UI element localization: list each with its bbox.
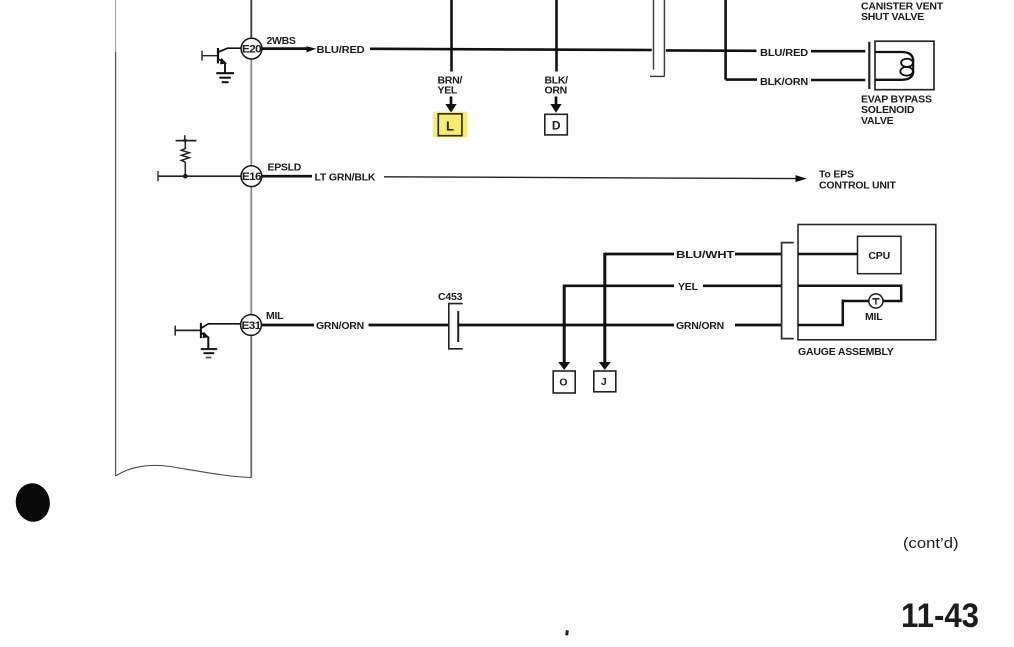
wire E16 to LT GRN/BLK xyxy=(262,175,312,178)
wire canister vent shut valve drop xyxy=(726,0,757,80)
node E16 connector circle xyxy=(241,166,262,187)
connector O xyxy=(553,371,575,393)
BLK/ORN wire color label xyxy=(545,74,569,96)
wire GRN/ORN run after C453 xyxy=(458,324,781,327)
ground (E31 transistor emitter) xyxy=(201,349,217,357)
wire BLU/RED horizontal run xyxy=(370,49,757,51)
svg-text:ORN: ORN xyxy=(545,85,567,97)
svg-text:SHUT VALVE: SHUT VALVE xyxy=(861,11,924,23)
wire BLU/WHT inside gauge to CPU xyxy=(798,253,858,256)
wire BLU/WHT label xyxy=(676,249,735,261)
svg-text:CONTROL UNIT: CONTROL UNIT xyxy=(819,180,897,192)
wire BRN/YEL vertical from top xyxy=(450,0,453,72)
transistor Q (power transistor at E20) xyxy=(202,48,241,73)
wire MIL lamp to GRN/ORN xyxy=(798,300,869,326)
svg-text:O: O xyxy=(559,376,567,388)
connector C453 xyxy=(438,291,463,349)
wire arrow down to connector L xyxy=(445,97,456,113)
wire YEL branch: corner + vertical to connector O xyxy=(558,285,674,370)
wire BLU/WHT run to gauge connector xyxy=(735,253,781,256)
wire into E16 from left xyxy=(158,171,241,181)
svg-text:GAUGE ASSEMBLY: GAUGE ASSEMBLY xyxy=(798,346,894,358)
ink speck xyxy=(565,630,569,635)
svg-text:2WBS: 2WBS xyxy=(267,35,296,47)
CANISTER VENT SHUT VALVE label xyxy=(861,1,944,24)
MIL terminal label xyxy=(266,310,284,322)
svg-text:E20: E20 xyxy=(242,44,262,56)
GAUGE ASSEMBLY label xyxy=(798,346,894,358)
wire GRN/ORN label (left) xyxy=(316,320,364,332)
wire BLK/ORN to valve xyxy=(811,79,865,82)
svg-text:VALVE: VALVE xyxy=(861,115,894,127)
svg-text:YEL: YEL xyxy=(678,281,699,293)
page number 11-43 xyxy=(901,597,979,635)
wire GRN/ORN run to C453 xyxy=(369,324,450,327)
EVAP BYPASS SOLENOID VALVE label xyxy=(861,94,932,127)
node E20 connector circle xyxy=(241,38,262,59)
wire YEL label xyxy=(678,281,699,293)
svg-text:L: L xyxy=(446,118,454,133)
svg-text:MIL: MIL xyxy=(266,310,284,322)
wire BLU/RED label (right) xyxy=(760,47,809,59)
svg-text:GRN/ORN: GRN/ORN xyxy=(316,320,364,332)
wire GRN/ORN label (right) xyxy=(676,320,724,332)
wire BLU/RED to valve xyxy=(811,50,865,53)
CPU box xyxy=(858,236,902,273)
torn paper edge xyxy=(116,465,252,477)
wire E20 to BLU/RED arrow xyxy=(262,46,316,52)
page marker black dot xyxy=(13,481,52,524)
svg-text:11-43: 11-43 xyxy=(901,597,979,635)
svg-text:(cont’d): (cont’d) xyxy=(903,535,959,552)
wire BLK/ORN vertical from top xyxy=(555,0,558,72)
svg-text:J: J xyxy=(601,376,607,388)
svg-text:BLU/RED: BLU/RED xyxy=(760,47,809,59)
svg-text:E16: E16 xyxy=(242,171,262,183)
svg-text:YEL: YEL xyxy=(438,85,458,97)
ground (E20 transistor emitter) xyxy=(216,73,234,82)
wire BLU/RED label (left) xyxy=(317,44,366,56)
svg-text:E31: E31 xyxy=(242,320,262,332)
BRN/YEL wire color label xyxy=(438,74,463,96)
svg-text:MIL: MIL xyxy=(865,311,883,323)
MIL lamp label xyxy=(865,311,883,323)
transistor Q (power transistor at E31) xyxy=(175,323,241,349)
svg-text:BLK/ORN: BLK/ORN xyxy=(760,76,808,88)
To EPS CONTROL UNIT label xyxy=(819,169,897,192)
wire YEL run to gauge connector xyxy=(703,284,781,287)
resistor / sensor symbol near E16 xyxy=(176,135,197,178)
wire YEL inside gauge xyxy=(798,285,902,302)
connector D xyxy=(545,114,568,135)
svg-text:D: D xyxy=(552,119,561,133)
wire arrow down to connector D xyxy=(550,97,561,113)
gauge assembly box xyxy=(798,225,936,340)
wire main vertical bus through E20 E16 E31 xyxy=(250,0,252,478)
wire E31 to GRN/ORN xyxy=(262,324,315,327)
(cont'd) note xyxy=(903,535,959,552)
svg-text:CPU: CPU xyxy=(868,250,890,262)
gauge connector (bracket) xyxy=(782,243,794,339)
wire LT GRN/BLK label xyxy=(315,171,376,183)
solenoid coil L1 xyxy=(875,52,913,80)
svg-text:C453: C453 xyxy=(438,291,463,303)
EVAP bypass solenoid valve box xyxy=(875,41,934,89)
connector bar at solenoid valve xyxy=(868,42,870,89)
node E31 connector circle xyxy=(241,315,262,336)
connector L (highlighted) xyxy=(433,112,468,138)
wire BLK/ORN label (right) xyxy=(760,76,808,88)
svg-text:LT GRN/BLK: LT GRN/BLK xyxy=(315,171,376,183)
wire BLU/WHT branch: corner + vertical to connector J xyxy=(599,253,674,370)
EPSLD terminal label xyxy=(268,161,302,173)
svg-text:BLU/RED: BLU/RED xyxy=(317,44,366,56)
svg-text:EPSLD: EPSLD xyxy=(268,161,302,173)
wire left page-edge vertical line xyxy=(115,0,117,476)
wire long arrow to EPS control unit xyxy=(384,175,807,182)
connector J xyxy=(594,371,616,392)
MIL lamp xyxy=(869,294,883,308)
svg-text:GRN/ORN: GRN/ORN xyxy=(676,320,724,332)
in-line connector (staple) on BLU/RED run xyxy=(650,0,664,76)
svg-text:BLU/WHT: BLU/WHT xyxy=(676,249,735,261)
2WBS terminal label xyxy=(267,35,296,47)
